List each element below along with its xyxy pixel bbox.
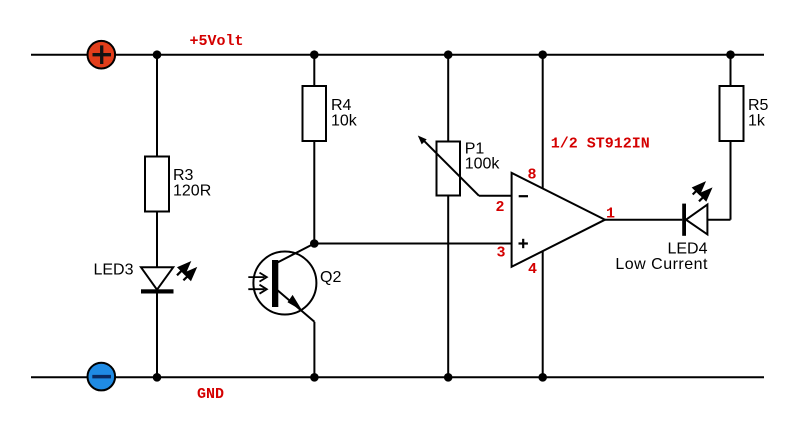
svg-text:+5Volt: +5Volt <box>190 33 244 50</box>
svg-text:Q2: Q2 <box>320 269 341 286</box>
transistor Q2 (photo) <box>253 244 316 378</box>
svg-text:4: 4 <box>528 261 537 278</box>
LED4 diode <box>682 204 707 236</box>
svg-text:120R: 120R <box>173 183 211 200</box>
resistor R5 <box>720 86 744 141</box>
node bottom junction x=448 <box>444 373 453 382</box>
node bottom junction x=314 <box>310 373 319 382</box>
svg-text:1k: 1k <box>748 112 766 129</box>
svg-text:Low Current: Low Current <box>615 256 708 273</box>
node top junction x=314 <box>310 50 319 59</box>
wire R5 to +5V <box>730 55 732 86</box>
op-amp U1 <box>512 173 605 267</box>
resistor R3 <box>145 157 169 212</box>
svg-text:GND: GND <box>197 386 224 403</box>
svg-text:R3: R3 <box>173 167 194 184</box>
LED3 diode <box>141 267 174 293</box>
LED4 emission arrows <box>693 183 711 201</box>
wire op-amp pin 4 to GND <box>542 252 544 378</box>
svg-text:10k: 10k <box>331 113 358 130</box>
svg-text:8: 8 <box>528 167 537 184</box>
wire node to op-amp pin 3 <box>314 243 511 245</box>
node top junction x=448 <box>444 50 453 59</box>
resistor R4 <box>303 86 327 141</box>
svg-text:LED3: LED3 <box>93 262 133 279</box>
node top junction x=157 <box>153 50 162 59</box>
wire bottom rail GND <box>31 376 764 378</box>
wire R3 to LED3 <box>156 212 158 268</box>
terminal + (red) <box>88 41 116 69</box>
svg-text:R4: R4 <box>331 97 352 114</box>
terminal - (blue) <box>88 363 116 391</box>
svg-text:100k: 100k <box>465 156 501 173</box>
wire +5V to R3 <box>156 55 158 157</box>
wire +5V to R4 <box>313 55 315 86</box>
potentiometer P1 <box>418 136 479 196</box>
wire op-amp output to LED4 <box>605 219 682 221</box>
wire P1 to GND <box>447 196 449 378</box>
wire top rail +5V <box>31 54 764 56</box>
wire LED3 to GND <box>156 290 158 378</box>
wire +5V to P1 <box>447 55 449 142</box>
node top junction x=731 <box>726 50 735 59</box>
wire LED4 to R5 branch <box>707 219 730 221</box>
svg-text:1/2 ST912IN: 1/2 ST912IN <box>551 136 650 153</box>
wire +5V to op-amp pin 8 <box>542 55 544 189</box>
svg-text:LED4: LED4 <box>667 241 707 258</box>
svg-text:2: 2 <box>496 199 505 216</box>
node bottom junction x=543 <box>538 373 547 382</box>
LED3 emission arrows <box>177 263 195 280</box>
wire wiper to op-amp pin 2 <box>479 195 512 197</box>
node top junction x=543 <box>538 50 547 59</box>
node junction collector/R4/pin3 <box>310 239 319 248</box>
svg-text:3: 3 <box>497 245 506 262</box>
wire R4 to node <box>313 141 315 244</box>
node bottom junction x=157 <box>153 373 162 382</box>
Q2 light arrows <box>248 273 266 294</box>
